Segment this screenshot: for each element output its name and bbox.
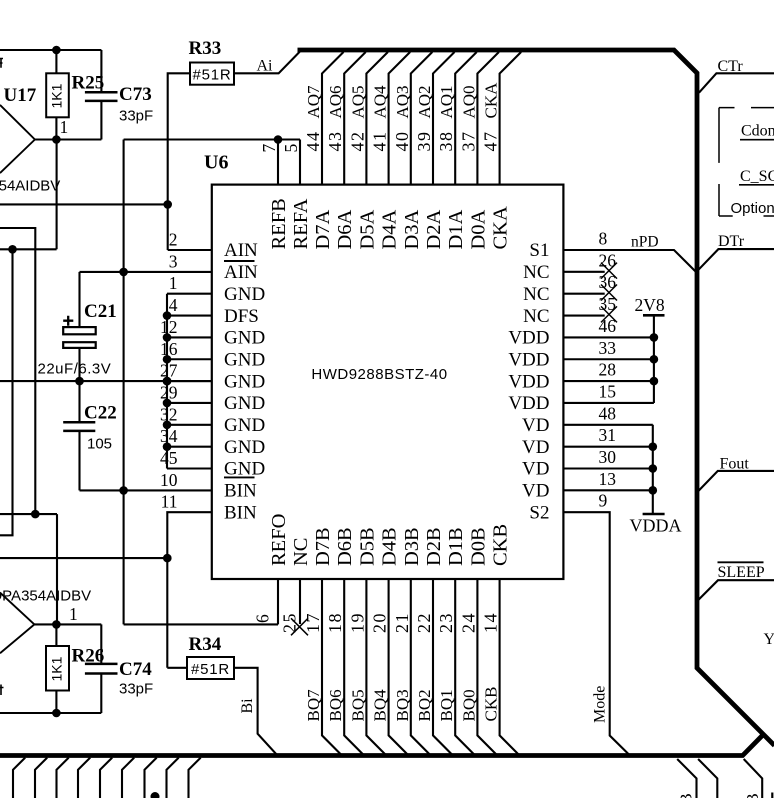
bottom-right breakout wire 2 bbox=[698, 759, 717, 798]
svg-text:105: 105 bbox=[87, 436, 112, 453]
GND long wire (pin 27 row) bbox=[0, 380, 212, 382]
svg-text:D3B: D3B bbox=[401, 527, 423, 566]
pin 23 BQ1 wire bbox=[455, 579, 475, 756]
svg-text:22uF/6.3V: 22uF/6.3V bbox=[38, 360, 112, 377]
bus B (bottom thick bus) bbox=[0, 734, 764, 755]
pin 41 AQ4 wire bbox=[389, 52, 411, 185]
svg-text:REFO: REFO bbox=[268, 514, 290, 566]
svg-text:AIN: AIN bbox=[224, 240, 258, 261]
U17 output wire bbox=[35, 138, 102, 140]
C74 bottom lead bbox=[100, 674, 102, 714]
svg-text:16: 16 bbox=[160, 339, 178, 359]
svg-text:R25: R25 bbox=[72, 73, 105, 94]
bottom breakout wire 1 bbox=[13, 758, 25, 798]
REFA/REFB tie wire bbox=[124, 138, 300, 140]
junction dot GND bracket row27 bbox=[163, 377, 172, 386]
svg-text:3: 3 bbox=[169, 251, 178, 271]
svg-text:BQ4: BQ4 bbox=[371, 689, 390, 722]
svg-text:1K1: 1K1 bbox=[49, 656, 65, 681]
svg-text:HWD9288BSTZ-40: HWD9288BSTZ-40 bbox=[311, 366, 447, 383]
svg-text:D7A: D7A bbox=[312, 209, 334, 249]
R25 top lead bbox=[55, 50, 57, 73]
svg-text:10: 10 bbox=[160, 470, 178, 490]
pin 19 BQ5 wire bbox=[366, 579, 386, 756]
bottom breakout wire 7 bbox=[145, 758, 157, 798]
pin 45 GND wire bbox=[167, 467, 212, 469]
underline of C_SCK bbox=[739, 184, 774, 186]
R25 bottom lead bbox=[55, 117, 57, 139]
underline of Cdone bbox=[740, 139, 774, 141]
svg-text:BQ0: BQ0 bbox=[459, 689, 478, 721]
svg-text:B: B bbox=[743, 793, 762, 798]
junction dot U17 output bbox=[52, 135, 61, 144]
C74 top lead bbox=[100, 624, 102, 664]
IC U6 body bbox=[212, 185, 564, 579]
svg-text:GND: GND bbox=[224, 328, 265, 349]
svg-text:14: 14 bbox=[481, 612, 501, 633]
svg-text:VDDA: VDDA bbox=[630, 515, 682, 535]
svg-text:#51R: #51R bbox=[191, 661, 230, 678]
svg-text:BQ7: BQ7 bbox=[304, 689, 323, 722]
svg-text:S1: S1 bbox=[529, 240, 549, 261]
svg-text:BQ2: BQ2 bbox=[415, 689, 434, 721]
no-connect X row3 bbox=[601, 285, 617, 301]
no-connect X pin 25 bbox=[291, 618, 308, 635]
junction dot /BIN-REFO bbox=[119, 486, 128, 495]
svg-text:20: 20 bbox=[370, 612, 390, 633]
svg-text:GND: GND bbox=[224, 349, 265, 370]
svg-text:44: 44 bbox=[303, 131, 323, 152]
svg-text:GND: GND bbox=[224, 393, 265, 414]
pin 44 AQ7 wire bbox=[322, 52, 344, 185]
pin 3 /AIN wire bbox=[80, 271, 212, 273]
svg-text:22: 22 bbox=[414, 612, 434, 633]
bottom breakout wire 6 bbox=[122, 758, 134, 798]
pin 43 AQ6 wire bbox=[344, 52, 366, 185]
capacitor C21 plates bbox=[63, 327, 95, 348]
pin 18 BQ6 wire bbox=[344, 579, 364, 756]
net tap Fout bbox=[698, 471, 774, 492]
R34 left lead bbox=[167, 667, 187, 669]
power symbol VDDA bar bbox=[643, 513, 665, 516]
NC stub row2 bbox=[563, 271, 604, 273]
svg-text:C22: C22 bbox=[84, 403, 117, 424]
svg-text:D2B: D2B bbox=[423, 527, 445, 566]
bottom breakout wire 8 bbox=[167, 758, 179, 798]
svg-text:Mode: Mode bbox=[592, 686, 609, 723]
GND bracket junction dot row7 bbox=[163, 377, 172, 386]
bottom breakout wire 5 bbox=[100, 758, 112, 798]
VD stub row11 bbox=[563, 467, 652, 469]
svg-text:AQ3: AQ3 bbox=[393, 85, 412, 118]
VDDA rail vertical bbox=[652, 425, 654, 514]
pin 14 CKB wire bbox=[500, 579, 520, 756]
op-amp 2 inverting input wire bbox=[0, 513, 57, 515]
VD stub pin 48 bbox=[563, 424, 652, 426]
GND bracket pin wire row6 bbox=[167, 358, 212, 360]
R33 left lead bbox=[168, 73, 190, 250]
VDD stub row5 bbox=[563, 336, 654, 338]
svg-text:D1B: D1B bbox=[445, 527, 467, 566]
clipped label sliver right edge bbox=[771, 793, 773, 798]
svg-text:26: 26 bbox=[599, 250, 617, 270]
svg-text:CKB: CKB bbox=[482, 687, 501, 722]
GND bracket junction dot row10 bbox=[163, 442, 172, 451]
no-connect X row2 bbox=[601, 263, 617, 279]
svg-text:SLEEP: SLEEP bbox=[718, 564, 765, 581]
svg-text:19: 19 bbox=[347, 612, 367, 633]
svg-text:AQ1: AQ1 bbox=[437, 85, 456, 118]
dashed option box bbox=[719, 108, 774, 216]
op-amp 2 output wire bbox=[34, 623, 101, 625]
svg-text:C74: C74 bbox=[119, 659, 152, 680]
pin 21 BQ3 wire bbox=[411, 579, 431, 756]
pin 24 BQ0 wire bbox=[477, 579, 497, 756]
VDDA rail junction dot 11 bbox=[649, 486, 658, 495]
svg-text:YD: YD bbox=[764, 631, 774, 648]
GND bracket pin wire row8 bbox=[167, 402, 212, 404]
resistor R33 body bbox=[190, 63, 234, 85]
R26 top lead bbox=[55, 624, 57, 646]
pin 37 AQ0 wire bbox=[477, 52, 499, 185]
GND bracket pin wire row10 bbox=[167, 446, 212, 448]
svg-text:41: 41 bbox=[370, 131, 390, 152]
pin 9 S2/Mode wire bbox=[563, 512, 630, 756]
svg-text:nPD: nPD bbox=[631, 233, 659, 250]
svg-text:D4A: D4A bbox=[379, 209, 401, 249]
svg-text:D4B: D4B bbox=[379, 527, 401, 566]
bottom node wire bbox=[0, 712, 101, 714]
svg-text:CTr: CTr bbox=[718, 58, 744, 75]
svg-text:GND: GND bbox=[224, 437, 265, 458]
svg-text:C21: C21 bbox=[84, 301, 117, 322]
power symbol 2V8 bar bbox=[643, 314, 665, 317]
pin 20 BQ4 wire bbox=[389, 579, 409, 756]
overline of /BIN (pin 10) bbox=[224, 476, 255, 478]
pin 39 AQ2 wire bbox=[433, 52, 455, 185]
svg-text:AIN: AIN bbox=[224, 262, 258, 283]
GND bracket pin wire row9 bbox=[167, 424, 212, 426]
U17 inverting input wire bbox=[0, 248, 57, 250]
svg-text:21: 21 bbox=[392, 612, 412, 633]
svg-text:GND: GND bbox=[224, 371, 265, 392]
junction dot /AIN-REFO bbox=[119, 268, 128, 277]
svg-text:33pF: 33pF bbox=[119, 681, 153, 698]
GND bracket pin wire row7 bbox=[167, 380, 212, 382]
svg-text:17: 17 bbox=[303, 612, 323, 633]
capacitor C74 plates bbox=[85, 664, 118, 674]
junction dot bottom edge bbox=[151, 792, 160, 798]
svg-text:VD: VD bbox=[522, 481, 549, 502]
svg-text:OPA354AIDBV: OPA354AIDBV bbox=[0, 588, 91, 605]
left net B wire bbox=[0, 228, 35, 514]
bottom breakout wire 3 bbox=[57, 758, 69, 798]
C21 bottom lead bbox=[78, 348, 80, 381]
pin 1 GND wire bbox=[167, 293, 212, 295]
svg-text:GND: GND bbox=[224, 415, 265, 436]
NC stub row3 bbox=[563, 293, 604, 295]
GND bracket junction dot row8 bbox=[163, 399, 172, 408]
svg-text:2: 2 bbox=[169, 230, 178, 250]
svg-text:15: 15 bbox=[599, 381, 617, 401]
svg-text:AQ2: AQ2 bbox=[415, 85, 434, 118]
svg-text:36: 36 bbox=[599, 272, 617, 292]
svg-text:35: 35 bbox=[599, 294, 617, 314]
svg-text:33pF: 33pF bbox=[119, 108, 153, 125]
C73 bottom lead bbox=[100, 101, 102, 140]
op-amp U17 triangle bbox=[0, 105, 35, 173]
C21 top lead bbox=[78, 272, 80, 327]
svg-text:C_SCK: C_SCK bbox=[740, 168, 774, 185]
svg-text:37: 37 bbox=[458, 131, 478, 152]
left net A vertical bbox=[0, 249, 13, 535]
pin 38 AQ1 wire bbox=[455, 52, 477, 185]
svg-text:BQ3: BQ3 bbox=[393, 689, 412, 721]
R34 right lead / Bi wire bbox=[234, 668, 278, 756]
svg-text:6: 6 bbox=[253, 614, 273, 623]
bottom breakout wire 9 bbox=[189, 758, 201, 798]
svg-text:28: 28 bbox=[599, 360, 617, 380]
U17 feedback vertical bbox=[56, 140, 58, 250]
svg-text:1: 1 bbox=[169, 273, 178, 293]
svg-text:34: 34 bbox=[160, 426, 178, 446]
svg-text:2V8: 2V8 bbox=[635, 295, 665, 315]
svg-text:Bi: Bi bbox=[239, 698, 256, 714]
svg-text:40: 40 bbox=[392, 131, 412, 152]
pin 17 BQ7 wire bbox=[322, 579, 342, 756]
bottom-right breakout wire 1 bbox=[677, 759, 696, 798]
REFO rail vertical bbox=[123, 140, 125, 625]
svg-text:BIN: BIN bbox=[224, 502, 257, 523]
2V8 rail junction dot 5 bbox=[650, 355, 659, 364]
svg-text:NC: NC bbox=[290, 538, 312, 566]
svg-text:CKA: CKA bbox=[490, 206, 512, 249]
svg-text:12: 12 bbox=[160, 317, 178, 337]
GND bracket junction dot row6 bbox=[163, 355, 172, 364]
VDD stub row6 bbox=[563, 358, 654, 360]
C22 top lead bbox=[78, 381, 80, 422]
junction dot U17 top node bbox=[52, 46, 61, 55]
bus A (top/right thick bus) bbox=[298, 50, 774, 746]
svg-text:42: 42 bbox=[347, 131, 367, 152]
GND bracket pin wire row5 bbox=[167, 336, 212, 338]
C22 bottom lead bbox=[78, 431, 80, 491]
R33 right lead / Ai wire bbox=[234, 52, 300, 74]
net tap SLEEP bbox=[698, 580, 774, 600]
svg-text:R34: R34 bbox=[189, 634, 222, 655]
svg-text:#51R: #51R bbox=[192, 66, 231, 83]
svg-text:11: 11 bbox=[161, 492, 178, 512]
C73 top lead bbox=[100, 50, 102, 92]
VD stub row12 bbox=[563, 489, 652, 491]
svg-text:D5A: D5A bbox=[356, 209, 378, 249]
2V8 rail junction dot 6 bbox=[650, 377, 659, 386]
C21 polarity + bbox=[63, 316, 73, 326]
svg-text:D6B: D6B bbox=[334, 527, 356, 566]
left net B junction dot bbox=[31, 510, 40, 519]
svg-text:CKA: CKA bbox=[482, 82, 501, 119]
svg-text:AQ0: AQ0 bbox=[459, 85, 478, 118]
junction dot C21-C22 GND bbox=[75, 377, 84, 386]
pin 11 BIN wire bbox=[167, 512, 212, 668]
svg-text:DFS: DFS bbox=[224, 306, 259, 327]
svg-text:U6: U6 bbox=[204, 152, 228, 174]
clipped glyph top left edge bbox=[0, 59, 3, 68]
svg-text:D2A: D2A bbox=[423, 209, 445, 249]
svg-text:46: 46 bbox=[599, 316, 617, 336]
wire BIN to left bbox=[0, 557, 167, 559]
pin 25 NC stub bbox=[299, 579, 301, 624]
svg-text:8: 8 bbox=[599, 229, 608, 249]
pin 7 REFB wire bbox=[277, 140, 279, 185]
overline of SLEEP bbox=[718, 561, 764, 563]
svg-text:43: 43 bbox=[325, 131, 345, 152]
svg-text:VDD: VDD bbox=[508, 393, 549, 414]
svg-text:GND: GND bbox=[224, 284, 265, 305]
svg-text:BQ5: BQ5 bbox=[348, 689, 367, 721]
svg-text:30: 30 bbox=[599, 447, 617, 467]
svg-text:VDD: VDD bbox=[508, 371, 549, 392]
GND bracket pin wire row4 bbox=[167, 314, 212, 316]
pin 7 junction dot bbox=[274, 135, 283, 144]
pin 2 AIN wire bbox=[168, 249, 212, 251]
svg-text:47: 47 bbox=[481, 131, 501, 152]
svg-text:31: 31 bbox=[599, 425, 617, 445]
bottom-right breakout wire 3 bbox=[744, 759, 763, 798]
svg-text:NC: NC bbox=[523, 284, 549, 305]
pin 47 CKA wire bbox=[500, 52, 521, 185]
resistor R26 body bbox=[46, 646, 69, 691]
2V8 rail vertical bbox=[653, 315, 655, 403]
op-amp 2 feedback vertical bbox=[56, 514, 58, 624]
junction dot AIN tap bbox=[163, 200, 172, 209]
svg-text:1: 1 bbox=[60, 117, 69, 137]
bottom breakout wire 4 bbox=[78, 758, 90, 798]
svg-text:VD: VD bbox=[522, 459, 549, 480]
svg-text:9: 9 bbox=[599, 491, 608, 511]
svg-text:D0B: D0B bbox=[467, 527, 489, 566]
svg-text:1K1: 1K1 bbox=[49, 83, 65, 108]
svg-text:REFA: REFA bbox=[290, 198, 312, 249]
svg-text:18: 18 bbox=[325, 612, 345, 633]
svg-text:B: B bbox=[677, 793, 696, 798]
svg-text:D6A: D6A bbox=[334, 209, 356, 249]
svg-text:VD: VD bbox=[522, 437, 549, 458]
U17 top node wire bbox=[0, 49, 101, 51]
bottom breakout wire 2 bbox=[35, 758, 47, 798]
svg-text:23: 23 bbox=[436, 612, 456, 633]
svg-text:45: 45 bbox=[160, 448, 178, 468]
junction dot op-amp 2 output bbox=[52, 620, 61, 629]
svg-text:13: 13 bbox=[599, 469, 617, 489]
pin 22 BQ2 wire bbox=[433, 579, 453, 756]
svg-text:D3A: D3A bbox=[401, 209, 423, 249]
svg-text:D7B: D7B bbox=[312, 527, 334, 566]
svg-text:AQ4: AQ4 bbox=[371, 85, 390, 119]
clipped glyph bottom left edge bbox=[0, 685, 4, 696]
svg-text:39: 39 bbox=[414, 131, 434, 152]
VD stub row10 bbox=[563, 446, 652, 448]
svg-text:AQ7: AQ7 bbox=[304, 85, 323, 119]
pin 8 S1/nPD wire bbox=[563, 250, 696, 273]
svg-text:25: 25 bbox=[280, 612, 300, 633]
pin 6 REFO wire bbox=[277, 579, 279, 624]
svg-text:DTr: DTr bbox=[718, 233, 745, 250]
svg-text:D1A: D1A bbox=[445, 209, 467, 249]
svg-text:33: 33 bbox=[599, 338, 617, 358]
svg-text:BQ6: BQ6 bbox=[326, 689, 345, 721]
svg-text:S2: S2 bbox=[529, 502, 549, 523]
VDD stub pin 15 bbox=[563, 402, 654, 404]
svg-text:AQ6: AQ6 bbox=[326, 85, 345, 118]
wire AIN to left bbox=[0, 203, 168, 205]
VDD stub row7 bbox=[563, 380, 654, 382]
overline of /AIN (pin 3) bbox=[224, 260, 255, 262]
junction dot left net A bbox=[8, 245, 17, 254]
svg-text:24: 24 bbox=[458, 612, 478, 633]
2V8 rail junction dot 4 bbox=[650, 333, 659, 342]
net tap DTr bbox=[698, 249, 774, 270]
svg-text:38: 38 bbox=[436, 131, 456, 152]
svg-text:NC: NC bbox=[523, 262, 549, 283]
svg-text:7: 7 bbox=[259, 144, 279, 153]
REFO bottom wire bbox=[124, 623, 278, 625]
svg-text:CKB: CKB bbox=[490, 524, 512, 566]
svg-text:Optional: Optional bbox=[731, 200, 774, 217]
svg-text:C73: C73 bbox=[119, 84, 152, 105]
resistor R34 body bbox=[187, 657, 234, 679]
net tap CTr bbox=[699, 73, 774, 92]
pin 10 /BIN wire bbox=[80, 489, 212, 491]
GND bracket junction dot row5 bbox=[163, 333, 172, 342]
junction dot BIN tap bbox=[163, 554, 172, 563]
svg-text:REFB: REFB bbox=[268, 198, 290, 249]
svg-text:OPA354AIDBV: OPA354AIDBV bbox=[0, 177, 60, 194]
svg-text:5: 5 bbox=[281, 144, 301, 153]
GND bracket junction dot row9 bbox=[163, 421, 172, 430]
capacitor C22 plates bbox=[63, 422, 95, 431]
svg-text:Cdone: Cdone bbox=[741, 123, 774, 140]
no-connect X row4 bbox=[601, 306, 617, 322]
svg-text:R33: R33 bbox=[189, 38, 222, 59]
capacitor C73 plates bbox=[85, 92, 118, 101]
svg-text:BQ1: BQ1 bbox=[437, 689, 456, 721]
svg-text:VD: VD bbox=[522, 415, 549, 436]
VDDA rail junction dot 10 bbox=[649, 464, 658, 473]
svg-text:U17: U17 bbox=[4, 85, 37, 106]
NC stub row4 bbox=[563, 314, 604, 316]
resistor R25 body bbox=[46, 73, 69, 117]
op-amp 2 triangle bbox=[0, 593, 34, 654]
svg-text:Ai: Ai bbox=[257, 57, 274, 74]
svg-text:NC: NC bbox=[523, 306, 549, 327]
R26 bottom lead bbox=[55, 691, 57, 714]
junction dot bottom node bbox=[52, 709, 61, 718]
svg-text:BIN: BIN bbox=[224, 481, 257, 502]
svg-text:4: 4 bbox=[169, 295, 178, 315]
svg-text:D0A: D0A bbox=[467, 209, 489, 249]
GND bracket vertical bbox=[166, 294, 168, 469]
svg-text:32: 32 bbox=[160, 404, 178, 424]
svg-text:VDD: VDD bbox=[508, 349, 549, 370]
svg-text:Fout: Fout bbox=[720, 455, 750, 472]
svg-text:VDD: VDD bbox=[508, 328, 549, 349]
GND bracket junction dot row4 bbox=[163, 311, 172, 320]
svg-text:AQ5: AQ5 bbox=[348, 85, 367, 118]
svg-text:D5B: D5B bbox=[356, 527, 378, 566]
pin 42 AQ5 wire bbox=[366, 52, 388, 185]
VDDA rail junction dot 9 bbox=[649, 442, 658, 451]
